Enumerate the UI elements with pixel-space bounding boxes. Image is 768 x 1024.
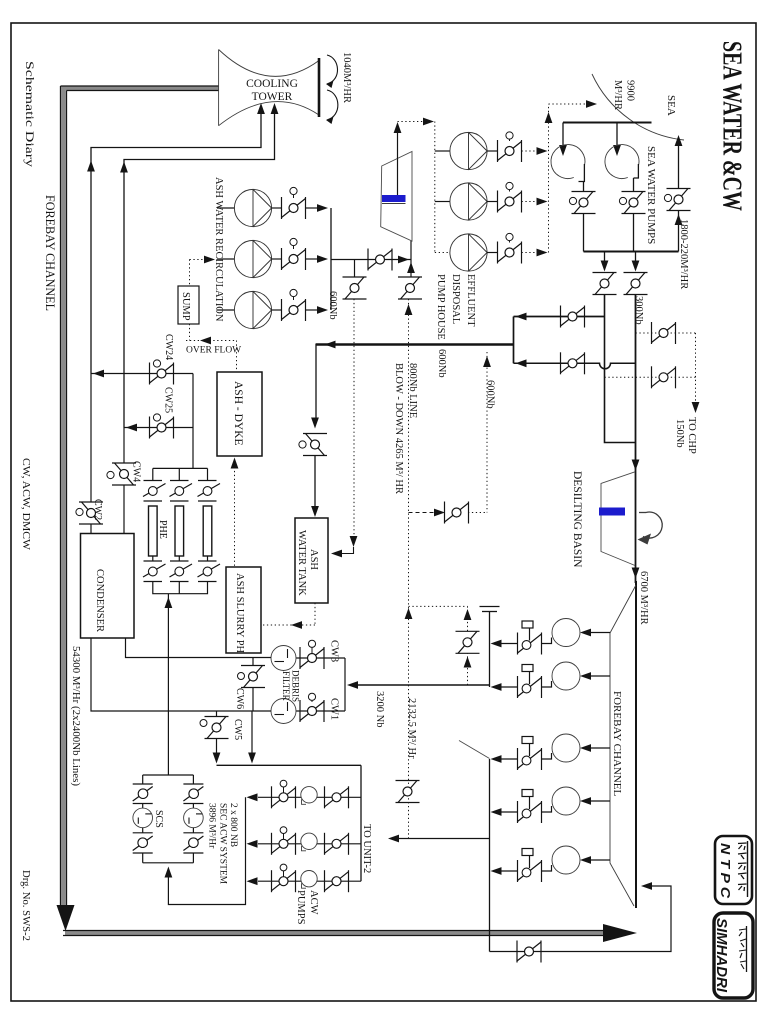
riser B to tower: wire (124, 110, 275, 428)
svg-text:1800-220M³/HR: 1800-220M³/HR (678, 219, 689, 289)
svg-text:SEA WATER &CW: SEA WATER &CW (718, 41, 748, 211)
svg-text:SCS: SCS (153, 810, 164, 828)
right downcomer wire lower (635, 295, 637, 584)
svg-text:CW1: CW1 (329, 698, 340, 720)
valve under pump 2 (622, 192, 646, 214)
SUMP box (178, 286, 199, 324)
svg-text:BLOW - DOWN 4265 M³/ HR: BLOW - DOWN 4265 M³/ HR (393, 363, 404, 494)
blowdown branch wire from header (331, 259, 411, 261)
PHE bottom valve 2 (170, 556, 193, 582)
dotted drain to tank right side (353, 299, 355, 538)
CW pump row 3 (491, 734, 611, 770)
valve on lower branch (561, 352, 585, 374)
svg-text:SUMP: SUMP (180, 292, 191, 321)
NTPC logo box (715, 836, 752, 904)
ACW supply collector wire (360, 765, 362, 881)
dotted ash slurry to dyke (234, 467, 236, 566)
dashed cross line with valve (409, 512, 438, 514)
tee to ash water tank dotted (354, 260, 356, 278)
collector 1 wire (489, 612, 491, 687)
svg-text:ASH WATER RECIRCULATION: ASH WATER RECIRCULATION (213, 177, 224, 322)
svg-text:SEA: SEA (665, 95, 677, 116)
valve on sea return (667, 189, 691, 211)
svg-text:FOREBAY CHANNEL: FOREBAY CHANNEL (43, 195, 57, 311)
CW pump row 4 (491, 787, 611, 823)
recirculation bottom wire (490, 886, 672, 952)
branch wire lower with hop (514, 363, 636, 369)
arrow left on CW24 branch (93, 370, 104, 378)
svg-text:SIMHADRI: SIMHADRI (713, 918, 729, 993)
effluent disposal pump 1 (435, 132, 548, 170)
svg-text:TOWER: TOWER (252, 91, 293, 103)
svg-text:PUMPS: PUMPS (295, 890, 306, 925)
svg-text:9900: 9900 (625, 80, 636, 101)
PHE column 2 valve (170, 468, 193, 501)
svg-text:600Nb: 600Nb (327, 291, 338, 320)
ASH WATER TANK box (295, 518, 328, 603)
arrow right into pond drain (398, 256, 409, 264)
desilting basin (601, 472, 635, 566)
svg-text:COOLING: COOLING (246, 78, 298, 90)
svg-text:CONDENSER: CONDENSER (94, 569, 105, 632)
svg-text:TO UNIT-2: TO UNIT-2 (361, 824, 372, 873)
valve on pond drain (398, 277, 422, 299)
ASH SLURRY PH box (226, 567, 261, 653)
arrow up on PHE drop (165, 597, 173, 608)
dotted effluent discharge riser to sea (549, 104, 589, 253)
big down arrow at channel bottom (57, 905, 75, 931)
drop to unit-2 header (251, 711, 253, 755)
debris filter 2 (271, 699, 296, 724)
svg-text:2 x 800 NB: 2 x 800 NB (228, 803, 238, 847)
dotted sump suction (190, 260, 211, 341)
svg-text:CW4: CW4 (131, 461, 142, 482)
left downcomer wire lower (605, 295, 636, 443)
TO UNIT-2 header wire (217, 764, 362, 766)
valve on upper branch (561, 306, 585, 328)
SIMHADRI logo box (713, 913, 753, 998)
valve CW2 (90, 374, 92, 503)
SCS top bracket wire (143, 774, 194, 776)
arrow left on heavy line (325, 341, 336, 349)
arrow up below bypass valve (464, 657, 472, 668)
sea shore arc (592, 74, 684, 140)
valve CW1 (300, 700, 324, 722)
svg-text:SEC ACW SYSTEM: SEC ACW SYSTEM (218, 803, 228, 885)
svg-text:CW2: CW2 (92, 499, 103, 520)
CW25 branch wire (124, 427, 193, 429)
arrow up on riser A (87, 161, 95, 172)
effluent disposal pump 2 (435, 182, 548, 220)
PHE heat exchanger 1 (149, 506, 158, 556)
bottom channel double line (63, 931, 604, 936)
TO CHP dotted branch upper (636, 332, 696, 334)
ACW pump row 3 (247, 864, 362, 892)
svg-text:CW3: CW3 (329, 640, 340, 662)
dotted overflow to ash dyke (236, 341, 238, 372)
SCS branch left (133, 775, 153, 863)
arrow up on discharge riser (545, 112, 553, 123)
valve under pump 1 (572, 192, 596, 214)
arrow into tower B (271, 103, 279, 114)
ash recirculation pump 3 (217, 289, 328, 328)
debris filter 1 (271, 646, 296, 671)
sea water intake header wire (563, 122, 652, 124)
SCS branch right (183, 775, 203, 863)
pond drain wire (410, 241, 412, 277)
CW3 branch wire (296, 657, 345, 659)
svg-text:PHE: PHE (157, 520, 168, 539)
dotted bypass from 3200Nb line to blowdown (409, 606, 468, 685)
svg-text:800Nb LINE: 800Nb LINE (407, 363, 418, 418)
forebay channel left wall (610, 585, 636, 906)
sea water pump 1 (volute) (551, 145, 585, 179)
PHE bottom valve 3 (198, 556, 221, 582)
svg-text:SEA WATER PUMPS: SEA WATER PUMPS (645, 146, 657, 244)
dotted overflow to effluent pumps (398, 122, 435, 253)
dotted 600Nb drain (486, 352, 488, 513)
ACW pump row 1 (247, 780, 362, 808)
svg-text:ASH - DYKE: ASH - DYKE (232, 381, 244, 446)
svg-text:54300 M³/Hr (2x2400Nb Lines): 54300 M³/Hr (2x2400Nb Lines) (70, 646, 81, 787)
dotted CHP drop (695, 333, 697, 404)
PHE column 1 top: wire valve rect (143, 468, 166, 501)
arrow up on riser B (120, 162, 128, 173)
valve on blowdown branch (368, 249, 392, 271)
ash recirculation pump 2 (217, 238, 328, 277)
main line arrow above channel (632, 568, 640, 579)
sea water pump 2 (volute) (605, 145, 639, 179)
PHE column 3 valve (198, 468, 221, 501)
arrow right to pump suction (204, 256, 215, 264)
PHE heat exchanger 3 (203, 506, 212, 556)
svg-text:DEBRIS: DEBRIS (291, 670, 301, 702)
svg-text:CW, ACW, DMCW: CW, ACW, DMCW (20, 458, 32, 551)
svg-text:FOREBAY CHANNEL: FOREBAY CHANNEL (611, 691, 623, 797)
svg-text:FILTER: FILTER (281, 671, 291, 701)
basin blue weir (599, 508, 625, 516)
valve on left downcomer (593, 273, 617, 295)
left downcomer from manifold (604, 252, 606, 264)
svg-text:Schematic Diary: Schematic Diary (23, 61, 35, 167)
arrow down tank feed (311, 418, 319, 429)
ash recirc header wire (330, 208, 332, 310)
valve CW4 (123, 428, 125, 464)
return to sea wire (678, 211, 680, 252)
diagonal tick (459, 741, 490, 759)
ACW return collector wire (168, 797, 245, 904)
PHE heat exchanger 2 (175, 506, 184, 556)
condenser outlet wire A (91, 638, 271, 711)
dotted blowdown drop 2132.5 (408, 299, 410, 839)
svg-text:N T P C: N T P C (718, 843, 732, 899)
valve on tank tap (343, 277, 367, 299)
arrow into forebay channel (641, 882, 652, 890)
effluent pond (381, 152, 412, 242)
svg-text:6700 M³/HR: 6700 M³/HR (638, 571, 649, 625)
svg-text:ACW: ACW (308, 890, 319, 915)
pond blue weir (382, 195, 406, 202)
valve on 2132.5 line (396, 781, 420, 803)
CW return collector 2 wire (489, 759, 491, 952)
heavy 600Nb blowdown line (316, 343, 514, 345)
TO UNIT-2 outgoing wire (399, 838, 490, 840)
svg-text:CW25: CW25 (163, 387, 174, 413)
svg-text:OVER FLOW: OVER FLOW (186, 346, 241, 356)
PHE drop wire to SCS (167, 594, 169, 775)
arrow left overflow (200, 337, 211, 345)
svg-text:Drg. No. SWS-2: Drg. No. SWS-2 (20, 870, 32, 941)
svg-text:150Nb: 150Nb (674, 419, 685, 448)
branch wire 600Nb upper (514, 316, 605, 318)
svg-text:EFFLUENT: EFFLUENT (465, 274, 476, 327)
CW pump row 2 (491, 662, 611, 698)
overflow dotted line (186, 340, 237, 342)
SCS bottom bracket wire (143, 862, 194, 864)
ASH-DYKE box (217, 372, 262, 456)
forebay channel double line (left vertical) (61, 86, 220, 906)
CW pump row 1 (491, 619, 611, 655)
dotted tank bottom to ash slurry ph (263, 603, 315, 625)
svg-text:WATER TANK: WATER TANK (296, 530, 307, 596)
valve CW24 (150, 363, 174, 385)
valve CW6 (252, 658, 254, 666)
PHE bottom valve 1 (143, 556, 166, 582)
vortex arrow in basin (639, 512, 646, 514)
valve on bypass (456, 631, 480, 653)
svg-text:CW24: CW24 (163, 334, 174, 360)
CW1 branch wire (296, 710, 345, 712)
capped end symbol (480, 606, 500, 608)
svg-text:3200 Nb: 3200 Nb (374, 691, 385, 727)
svg-text:2132.5 M³/ Hr: 2132.5 M³/ Hr (406, 698, 417, 759)
arrow up on bypass top (464, 609, 472, 620)
ash water tank feed wire (315, 344, 317, 420)
arrow down into tank (311, 506, 319, 517)
TO CHP dotted branch lower (605, 376, 696, 378)
svg-text:DISPOSAL: DISPOSAL (450, 274, 461, 324)
ACW pump row 2 (247, 827, 362, 855)
pond overflow wire up (397, 131, 399, 195)
svg-text:1040M³/HR: 1040M³/HR (341, 52, 352, 103)
wire PHE feed (192, 374, 194, 469)
PHE top manifold wire (153, 467, 208, 469)
svg-text:ASH SLURRY PH: ASH SLURRY PH (234, 573, 245, 654)
valve on CHP branch lower (652, 366, 676, 388)
connector wire between branches (513, 317, 515, 364)
svg-text:ASH: ASH (308, 549, 319, 570)
right downcomer from manifold (635, 252, 637, 264)
PHE bottom manifold wire (153, 582, 208, 594)
steam plume arcs (327, 55, 338, 120)
valve on tank feed (303, 434, 327, 456)
sea water pump 1 feed (562, 123, 564, 147)
effluent disposal pump 3 (435, 233, 548, 271)
CW pump row 5 (491, 846, 611, 882)
svg-text:TO CHP: TO CHP (686, 417, 697, 454)
valve CW25 (150, 417, 174, 439)
valve on recirculation wire (517, 941, 541, 963)
condenser outlet wire B (126, 638, 272, 658)
svg-text:600Nb: 600Nb (436, 349, 447, 378)
arrow up into ash dyke (231, 458, 239, 469)
cooling tower shell (219, 50, 319, 126)
svg-text:600Nb: 600Nb (485, 380, 496, 409)
big right arrow on bottom channel (603, 924, 637, 942)
svg-text:CW6: CW6 (234, 688, 245, 709)
svg-text:M³/HR: M³/HR (612, 80, 623, 110)
pump discharge wires to manifold (583, 214, 585, 252)
condenser box (81, 534, 135, 639)
arrow up into SCS (165, 867, 173, 878)
valve on right downcomer (624, 273, 648, 295)
valve on CHP branch upper (652, 322, 676, 344)
ash recirculation pump 1 (217, 187, 328, 226)
valve CW5 (216, 711, 218, 717)
3200Nb wire (358, 684, 490, 686)
CW24 branch wire (91, 373, 193, 375)
sea water pump 2 feed (616, 123, 618, 147)
manifold wire (584, 251, 679, 253)
debris filter header wire (344, 658, 346, 711)
svg-text:PUMP HOUSE: PUMP HOUSE (435, 274, 446, 340)
valve CW3 (300, 647, 324, 669)
arrow right into sea (586, 100, 597, 108)
svg-text:CW5: CW5 (232, 719, 243, 740)
arrow left on CW25 branch (126, 424, 137, 432)
riser A to tower: wire (91, 110, 261, 374)
svg-text:DESILTING BASIN: DESILTING BASIN (571, 471, 583, 568)
forebay channel right wall (635, 581, 637, 908)
arrow into tower A (257, 103, 265, 114)
svg-text:3896 M³/Hr: 3896 M³/Hr (207, 803, 217, 849)
